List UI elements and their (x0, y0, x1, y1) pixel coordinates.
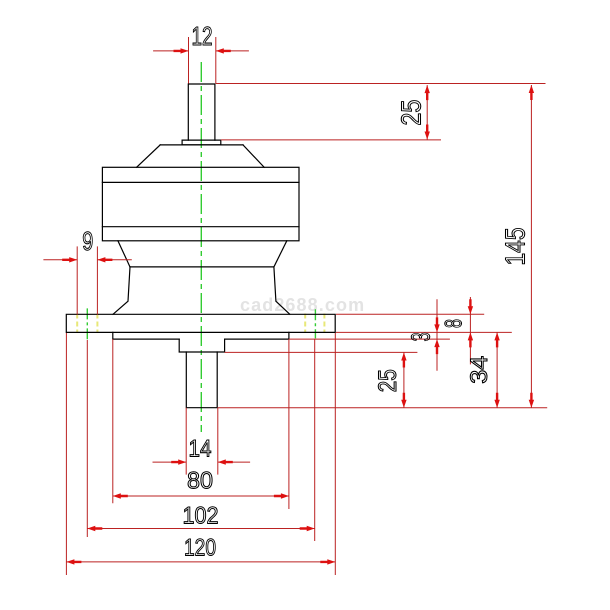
ext line dim80 right (288, 339, 290, 509)
ext line dim12 left (188, 37, 190, 84)
top shaft (188, 84, 215, 140)
ext line flange bottom right (336, 331, 512, 333)
arrow dim145 up (529, 85, 534, 100)
dim line 9 left (43, 259, 77, 261)
arrow dim25top down (425, 125, 430, 140)
dim line 3 (436, 299, 438, 371)
arrow dim9 left (62, 257, 77, 262)
centerline right bolt hole (314, 309, 316, 338)
svg-text:34: 34 (466, 356, 493, 384)
arrow dim102 left (87, 526, 102, 531)
arrow dim25top up (425, 85, 430, 100)
lower cone left slant (118, 241, 130, 267)
upper cone top edge (160, 144, 243, 146)
ext line dim9 right (96, 246, 98, 314)
dim line 80 (113, 495, 289, 497)
arrow dim3 down (434, 317, 439, 332)
svg-text:14: 14 (189, 436, 212, 463)
dim line 14 left (153, 461, 187, 463)
dim line 25 top (426, 85, 428, 139)
boss right edge (225, 332, 289, 339)
red dimension linework (43, 37, 547, 575)
hidden line right hole left edge (304, 314, 306, 334)
top collar (182, 140, 221, 145)
ext line shaft bottom right (218, 407, 547, 409)
svg-text:25: 25 (374, 369, 402, 392)
dim line 120 (66, 561, 335, 563)
svg-text:145: 145 (500, 228, 531, 266)
arrow dim9 right (97, 257, 112, 262)
hidden line right hole right edge (323, 314, 325, 334)
arrow dim12 left (174, 48, 189, 53)
centerline left bolt hole (86, 308, 88, 339)
dim line 12 right (216, 50, 249, 52)
ext line dim14 left (185, 408, 187, 475)
arrow dim25bottom up (401, 353, 406, 368)
ext line flange top right (336, 313, 484, 315)
svg-text:120: 120 (184, 534, 216, 561)
ext line dim9 left (76, 246, 78, 314)
ext line dim120 left (65, 333, 67, 575)
hub top edge (130, 266, 274, 268)
svg-text:12: 12 (192, 21, 213, 51)
arrow dim8 up (468, 332, 473, 347)
arrow dim102 right (300, 526, 315, 531)
dim line 102 (87, 528, 314, 530)
lower cone right slant (274, 241, 287, 267)
hub right side (274, 267, 290, 314)
arrow dim120 left (66, 559, 81, 564)
arrow dim34 down (494, 393, 499, 408)
arrow dim25bottom down (401, 393, 406, 408)
ext line step bottom right (225, 351, 418, 353)
arrow dim14 left (171, 459, 186, 464)
pulley cylinder (102, 167, 299, 241)
arrow dim3 up (434, 339, 439, 354)
dim line 145 (530, 85, 532, 408)
hidden line left hole right edge (96, 314, 98, 334)
svg-text:80: 80 (187, 468, 213, 495)
pulley band line upper (102, 181, 299, 183)
svg-text:8: 8 (441, 319, 468, 328)
ext line dim80 left (112, 339, 114, 503)
arrow dim12 right (216, 48, 231, 53)
ext line shaft top right (216, 83, 546, 85)
dim line 25 bottom (403, 353, 405, 408)
lower shaft (186, 352, 217, 408)
hidden line left hole left edge (76, 314, 78, 334)
upper cone right slant (243, 145, 264, 167)
arrow dim34 up (494, 332, 499, 347)
boss left edge (113, 332, 179, 339)
part outline (66, 84, 335, 408)
red arrowheads (62, 48, 534, 564)
dimension texts (82, 21, 530, 561)
arrow dim8 down (468, 299, 473, 314)
ext line dim12 right (215, 37, 217, 84)
pulley band line lower (102, 226, 299, 228)
svg-text:cad2688.com: cad2688.com (240, 295, 365, 315)
upper cone left slant (137, 145, 161, 167)
ext line dim14 right (217, 408, 219, 475)
dim line 34 (496, 332, 498, 407)
ext line dim120 right (334, 333, 336, 575)
arrow dim145 down (529, 393, 534, 408)
dim line 9 right (97, 259, 131, 261)
ext line dim102 left (86, 340, 88, 537)
hub left side (113, 267, 130, 314)
arrow dim80 right (274, 493, 289, 498)
dim line 14 right (218, 461, 250, 463)
arrow dim120 right (320, 559, 335, 564)
ext line collar top right (221, 139, 441, 141)
arrow dim14 right (218, 459, 233, 464)
ext line boss bottom right (289, 338, 450, 340)
flange (66, 314, 335, 332)
step (179, 339, 224, 352)
arrow dim80 left (113, 493, 128, 498)
dim line 8 (469, 297, 471, 364)
svg-text:3: 3 (406, 332, 436, 341)
svg-text:9: 9 (82, 226, 93, 256)
ext line dim102 right (314, 339, 316, 541)
svg-text:102: 102 (183, 502, 219, 529)
dim line 12 left (153, 50, 188, 52)
centerline main vertical (200, 62, 202, 432)
svg-text:25: 25 (396, 100, 427, 126)
